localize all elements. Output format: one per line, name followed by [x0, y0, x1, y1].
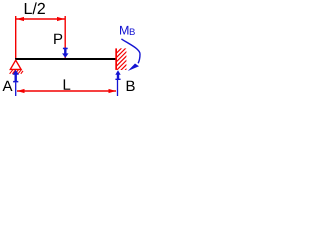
dim L/2 left arrowhead: [17, 17, 25, 21]
reaction arrow at B (up): [115, 70, 120, 80]
reaction arrow at A (up): [12, 70, 19, 83]
pin support triangle at A: [10, 60, 21, 69]
beam: [15, 58, 117, 60]
label A: [3, 81, 13, 91]
extension line at A (bottom, blue): [15, 82, 17, 96]
moment arc MB: [121, 39, 140, 63]
dimension line L: [17, 90, 116, 92]
dimension line L/2: [16, 18, 65, 20]
label B: [127, 81, 135, 91]
label MB: [120, 26, 128, 35]
label P: [54, 34, 62, 44]
extension line at B (bottom, blue): [117, 80, 119, 96]
wall face line at B: [115, 48, 117, 70]
moment arc arrowhead: [128, 64, 139, 72]
label L/2: [25, 2, 45, 14]
ground hatching at A: [10, 70, 23, 74]
dim L/2 right arrowhead: [57, 17, 65, 21]
label L: [64, 79, 71, 89]
force P arrow: [62, 48, 68, 58]
dim L left arrowhead: [17, 89, 25, 93]
extension line at A (top): [15, 16, 17, 59]
extension line at midspan: [64, 16, 66, 58]
dim L right arrowhead: [109, 89, 117, 93]
